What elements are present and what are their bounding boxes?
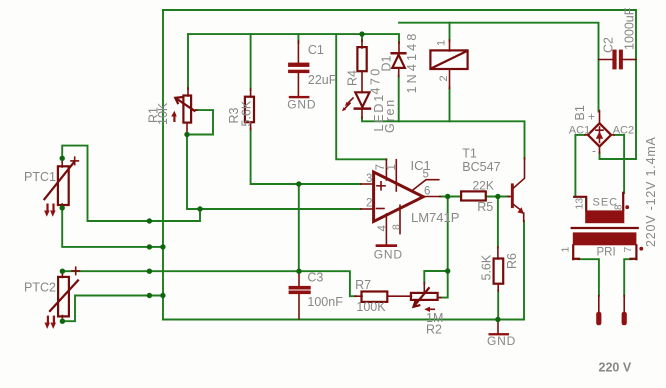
svg-text:C2: C2 <box>602 37 616 53</box>
thermistor PTC1 <box>44 157 78 217</box>
wire bridge AC1 to SEC left <box>575 135 585 197</box>
wire top ground rail <box>163 9 636 11</box>
svg-text:-: - <box>592 144 596 158</box>
ground symbol at op-amp pin4 <box>376 244 397 247</box>
svg-text:T1: T1 <box>462 147 477 161</box>
wire bottom ground rail <box>163 319 524 321</box>
wire R2 wiper jog <box>424 271 447 284</box>
wire V+ upper line D1 to bridge plus <box>399 23 599 112</box>
wire LED D1 relay collector node <box>362 118 525 159</box>
resistor R3 <box>245 89 254 130</box>
transformer TR1 primary winding PRI <box>573 232 643 259</box>
svg-text:R7: R7 <box>355 278 371 292</box>
resistor R7 <box>355 292 412 302</box>
svg-text:R6: R6 <box>505 253 519 269</box>
svg-text:GND: GND <box>374 247 403 261</box>
junction rail line D <box>160 293 165 298</box>
svg-text:PRI: PRI <box>597 247 616 259</box>
junction PTC2 top <box>60 269 65 274</box>
transistor T1 <box>508 158 525 222</box>
wire relay pin1 feed <box>449 23 451 41</box>
svg-text:Gren: Gren <box>383 98 397 133</box>
svg-text:8: 8 <box>391 224 403 230</box>
junction output node <box>445 194 450 199</box>
wire base node down to R6 <box>497 197 499 248</box>
junction node line A <box>147 218 152 223</box>
wire PTC2 top line to C3 and R7 <box>62 271 356 296</box>
wire R2 right terminal jog <box>440 271 448 298</box>
svg-text:1N4148: 1N4148 <box>405 31 419 94</box>
resistor R5 <box>461 191 486 200</box>
bridge rectifier B1 <box>585 111 614 154</box>
diode D1 <box>392 42 406 77</box>
ground symbol at C1 <box>289 96 310 98</box>
wire right ground rail to bridge minus <box>600 10 637 159</box>
svg-text:AC2: AC2 <box>613 125 634 137</box>
junction PTC1 top <box>60 156 65 161</box>
wire D1 bottom <box>398 76 400 122</box>
wire C1 top feed <box>297 34 299 43</box>
capacitor C3 <box>289 271 311 319</box>
junction R6 ground node <box>495 317 500 322</box>
svg-text:8: 8 <box>614 204 625 210</box>
svg-text:4: 4 <box>377 225 389 232</box>
svg-text:1: 1 <box>436 40 448 46</box>
wire relay pin2 down <box>449 88 451 122</box>
potentiometer R2 <box>411 283 441 313</box>
svg-text:220 V: 220 V <box>599 361 632 375</box>
wire R3 bottom to op-amp pin3 <box>251 129 361 185</box>
svg-text:R4: R4 <box>346 70 360 86</box>
wire pin3 node down to C3 node <box>298 184 300 271</box>
junction node line B <box>147 244 152 249</box>
wire PRI right lead <box>624 259 631 296</box>
transformer TR1 core <box>572 227 638 229</box>
junction R2 wiper node <box>445 268 450 273</box>
wire op-amp output node <box>440 196 461 198</box>
svg-text:13: 13 <box>574 198 586 210</box>
resistor R6 <box>494 247 504 291</box>
wire PTC1 top to inverting input <box>62 146 200 221</box>
svg-text:R2: R2 <box>426 323 442 337</box>
thermistor PTC2 <box>45 267 80 329</box>
ground symbol at R6 <box>489 320 510 336</box>
junction base node <box>495 194 500 199</box>
capacitor C1 <box>288 41 309 96</box>
svg-text:+: + <box>588 110 595 124</box>
resistor R4 <box>357 40 366 93</box>
svg-text:1000uF: 1000uF <box>623 7 637 50</box>
LED LED1 <box>342 92 370 118</box>
svg-text:22uF: 22uF <box>308 73 337 87</box>
wire PRI left lead <box>578 259 599 296</box>
svg-text:GND: GND <box>487 334 516 348</box>
svg-text:GND: GND <box>287 97 316 111</box>
wire R6 bottom to ground rail <box>497 291 499 320</box>
junction node line C <box>147 269 152 274</box>
svg-text:D1: D1 <box>380 55 394 71</box>
relay K1 coil <box>430 40 467 89</box>
capacitor C2 <box>599 50 637 70</box>
svg-text:PTC1: PTC1 <box>24 170 56 184</box>
op-amp IC1 <box>361 159 441 244</box>
wire R4 top feed <box>361 34 363 41</box>
svg-text:C3: C3 <box>307 271 323 285</box>
wire R1 wiper loop <box>187 110 213 134</box>
potentiometer R1 <box>171 88 197 135</box>
svg-text:3: 3 <box>366 173 372 185</box>
svg-text:100nF: 100nF <box>307 295 343 309</box>
svg-text:5: 5 <box>423 169 429 181</box>
wire V+ distribution line y34 <box>188 34 399 43</box>
wire output down to R2 wiper node <box>447 197 449 272</box>
wire PTC2 bottom to ground rail <box>62 296 163 322</box>
wire left ground rail <box>162 10 164 320</box>
junction R1 bottom <box>184 132 189 137</box>
wire R3 top feed <box>250 34 252 90</box>
svg-text:C1: C1 <box>308 43 324 57</box>
svg-text:220V -12V 1.4mA: 220V -12V 1.4mA <box>644 136 658 247</box>
wire R1 top feed <box>187 34 189 89</box>
svg-text:5.6K: 5.6K <box>480 254 494 280</box>
svg-text:1: 1 <box>560 247 572 253</box>
wire emitter to ground rail <box>523 221 525 320</box>
transformer TR1 secondary winding SEC <box>574 193 629 223</box>
svg-text:B1: B1 <box>573 105 587 120</box>
junction pin3 node <box>296 181 301 186</box>
junction node line D <box>147 293 152 298</box>
junction C3 top node <box>296 269 301 274</box>
wire R5 right to base node <box>486 196 509 198</box>
svg-text:7: 7 <box>622 247 634 253</box>
svg-text:2: 2 <box>366 198 372 210</box>
svg-text:5.6K: 5.6K <box>240 100 254 126</box>
svg-text:2: 2 <box>438 75 450 81</box>
junction PTC2 bottom <box>60 319 65 324</box>
svg-text:6: 6 <box>424 186 430 198</box>
junction PTC1 bottom <box>60 205 65 210</box>
wire bridge AC2 to SEC right <box>614 135 624 193</box>
junction rail line B <box>160 244 165 249</box>
junction inverting input node <box>197 206 202 211</box>
mains plug terminal left <box>596 296 601 326</box>
svg-text:BC547: BC547 <box>462 160 500 174</box>
wire op-amp pin7 feed <box>336 34 386 159</box>
svg-text:PTC2: PTC2 <box>24 281 56 295</box>
svg-text:LM741P: LM741P <box>411 210 459 225</box>
svg-text:1: 1 <box>386 164 398 170</box>
svg-text:R5: R5 <box>477 200 493 214</box>
svg-text:100K: 100K <box>356 300 386 314</box>
junction R4 top <box>359 31 364 36</box>
svg-text:22K: 22K <box>473 179 494 193</box>
wire R1 bottom to op-amp pin2 <box>187 135 361 210</box>
svg-text:AC1: AC1 <box>569 125 590 137</box>
wire PTC1 bottom to ground rail <box>62 208 163 247</box>
mains plug terminal right <box>622 296 627 326</box>
svg-text:10K: 10K <box>156 102 170 125</box>
